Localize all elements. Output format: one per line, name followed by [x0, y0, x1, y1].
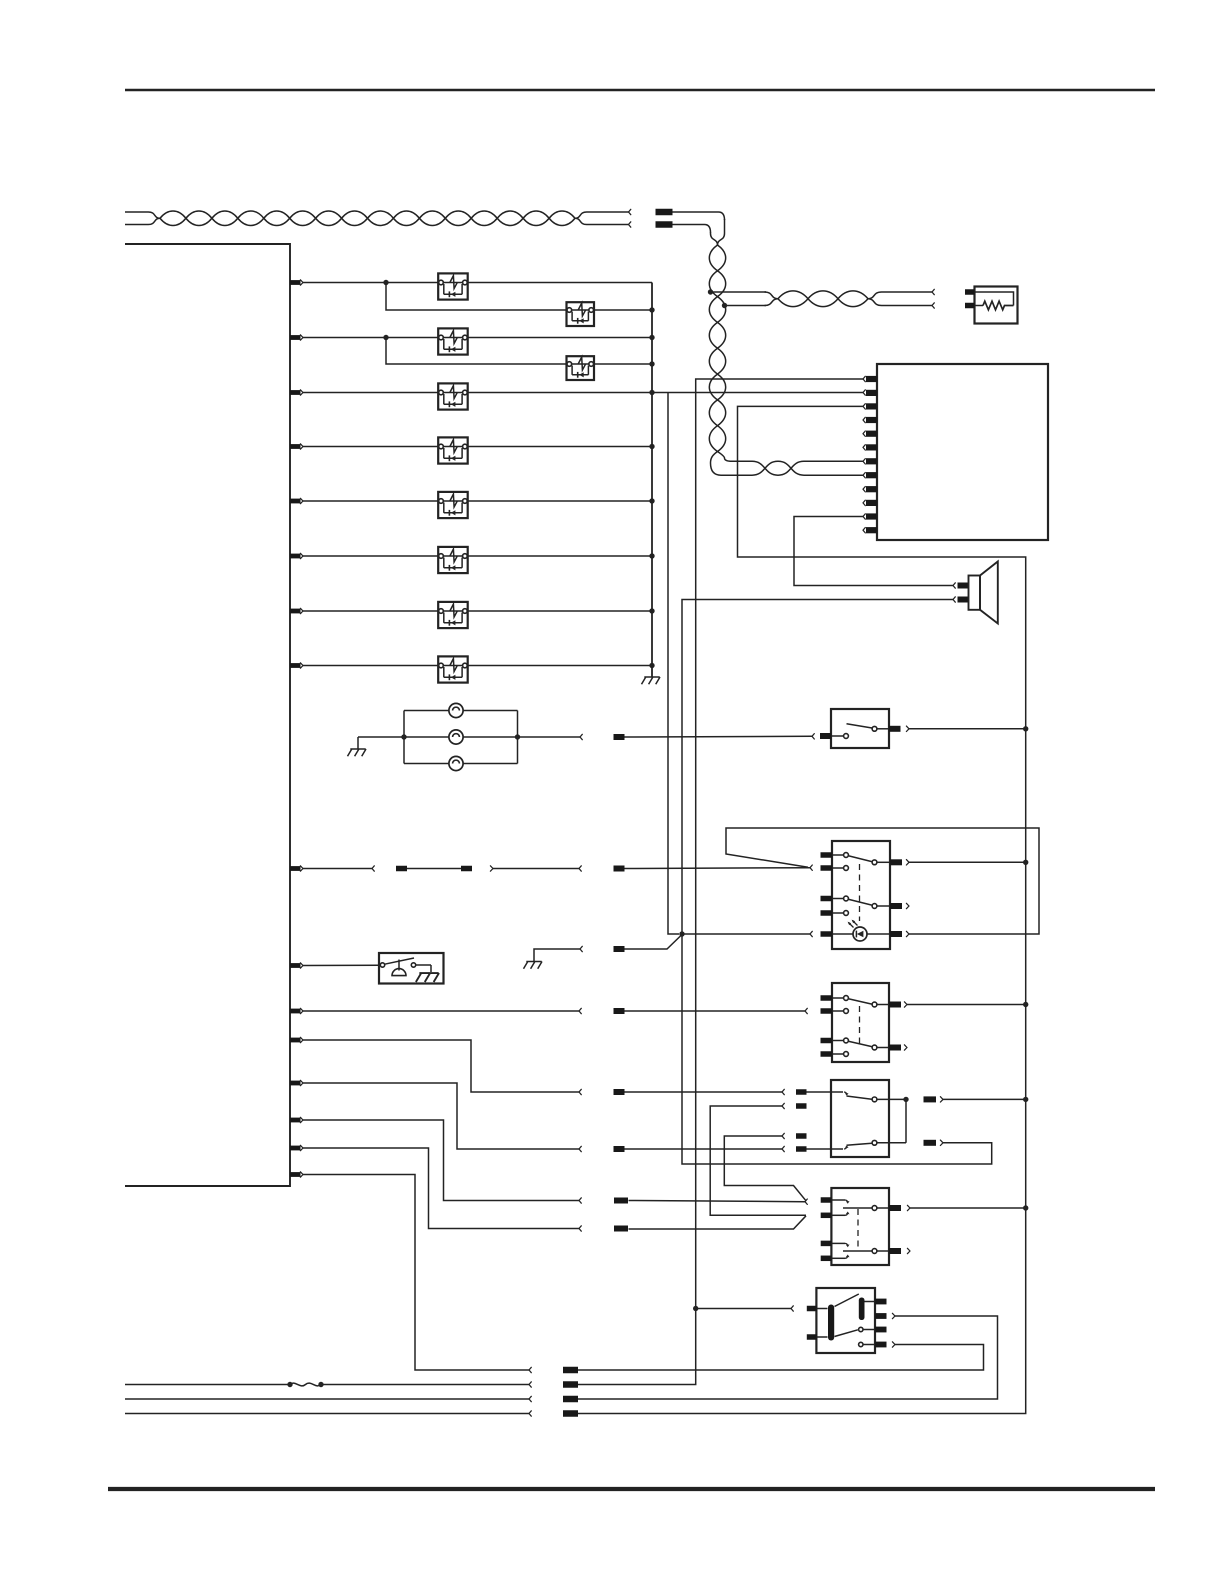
battery feed row 4	[125, 1413, 529, 1415]
branch junction row 1	[383, 280, 388, 285]
injector 1	[438, 273, 468, 299]
wire row 7	[303, 610, 652, 612]
harness pin (row 1011)	[290, 1009, 301, 1014]
switch SW4 (two pole, plug-in)	[831, 1080, 889, 1157]
noise condenser	[975, 287, 1018, 324]
indicator lamp cluster frame	[404, 710, 518, 712]
speaker pins	[958, 583, 969, 589]
injector 2	[438, 328, 468, 354]
wire SW4 pin2 link to SW5 pin2	[710, 1106, 806, 1215]
switch SW2 (combination switch with indicator)	[832, 841, 890, 949]
twisted pair harness (top left)	[125, 211, 629, 225]
terminal SW3 output 2	[904, 1045, 907, 1050]
wire SW1 output	[906, 726, 909, 731]
injector circuit row 3 pin	[290, 390, 301, 395]
wire SW4 pin3 link to SW5 pin1	[724, 1136, 806, 1201]
injector 7	[438, 602, 468, 628]
wire ECM pin11 to speaker +	[794, 517, 953, 586]
wire row 6	[303, 555, 652, 557]
wire SW5 output	[907, 1205, 910, 1210]
switch SW1 (single pole)	[831, 709, 889, 748]
wire	[303, 1083, 579, 1149]
wire to ground net junction	[625, 935, 683, 950]
injector 6	[438, 547, 468, 573]
connector pin	[614, 946, 625, 952]
speaker	[969, 576, 981, 610]
wire	[303, 1175, 529, 1371]
harness pin (stair row 3)	[290, 1118, 301, 1123]
branch junction row 2	[383, 335, 388, 340]
injector circuit row 8 pin	[290, 663, 301, 668]
indicator LED in SW2	[832, 933, 853, 935]
switch SW3 (two pole)	[832, 983, 889, 1062]
top rule	[125, 89, 1155, 92]
junction speaker return / ground net	[679, 931, 684, 936]
relay armature	[859, 1298, 865, 1321]
connector pin	[614, 1008, 625, 1014]
wire	[303, 1040, 579, 1092]
connector pins (switch feeds)	[614, 1089, 625, 1095]
wire SW3 output	[904, 1002, 907, 1007]
main harness line (top left)	[125, 244, 290, 1186]
bottom transition of vertical twisted pair	[711, 452, 864, 476]
wire	[303, 964, 380, 966]
bus junction dots	[649, 307, 654, 312]
wire SW2 output 1	[906, 860, 909, 865]
injector 8	[438, 656, 468, 682]
harness pin row (y868)	[290, 866, 301, 871]
switch SW5 (rotary selector)	[831, 1188, 889, 1265]
harness pin (stair row 4)	[290, 1146, 301, 1151]
terminal SW2 output 2	[906, 903, 909, 908]
wire branch 2	[386, 338, 652, 365]
wire ground to connector	[534, 949, 580, 962]
SW5 interior	[831, 1199, 845, 1201]
injector 3	[438, 383, 468, 409]
terminal SW5 output 2	[907, 1248, 910, 1253]
injector 2b (second bank)	[567, 356, 595, 380]
ground symbol (lamp cluster)	[348, 749, 367, 756]
relay (solenoid type)	[816, 1288, 875, 1353]
harness pin (stair row 1)	[290, 1038, 301, 1043]
wire row 4	[303, 446, 652, 448]
lamp 1	[449, 703, 463, 717]
relay contacts	[859, 1327, 863, 1331]
ground bus (right of injectors)	[651, 283, 653, 678]
wire ECM pin3 / power loop to switches	[578, 406, 1026, 1413]
wire relay output 2	[892, 1313, 895, 1318]
wire ground branch at x668	[668, 393, 679, 935]
wire	[303, 868, 372, 870]
wire speaker - return	[682, 600, 992, 1165]
wire	[303, 1148, 579, 1229]
wire row 2	[303, 337, 652, 339]
wire SW2 LED return loop	[726, 828, 1039, 934]
injector 5	[438, 492, 468, 518]
wire	[303, 1010, 579, 1012]
pressure switch (diaphragm type)	[379, 953, 444, 984]
injector circuit row 2 pin	[290, 335, 301, 340]
wire SW4 output 1	[940, 1097, 943, 1102]
connector pin	[614, 866, 625, 872]
injector circuit row 1 pin	[290, 280, 301, 285]
injector circuit row 4 pin	[290, 444, 301, 449]
wire row 8	[303, 665, 652, 667]
wire row 1	[303, 282, 652, 284]
junction at bus bottom	[649, 663, 654, 668]
injector 4	[438, 437, 468, 463]
lamp 3	[449, 756, 463, 770]
injector circuit row 6 pin	[290, 554, 301, 559]
wire to switch SW2	[625, 867, 811, 870]
injector circuit row 7 pin	[290, 609, 301, 614]
wire to oil pressure switch SW1	[625, 735, 813, 738]
harness pin (stair row 2)	[290, 1081, 301, 1086]
inline connector pair	[396, 866, 407, 872]
wire relay output 4	[892, 1342, 895, 1347]
ECM pins	[866, 376, 877, 382]
relay coil	[828, 1305, 834, 1341]
SW4 interior	[807, 1091, 844, 1093]
connector pin (gauge feed)	[614, 734, 625, 740]
wire to SW4 pin4	[625, 1148, 783, 1150]
wire relay feed	[696, 1308, 791, 1310]
wire ECM pin1 to main relay node	[578, 379, 863, 1385]
ground symbol (sensor return)	[524, 962, 543, 969]
twisted pair terminals at ECU pins 7-8	[863, 459, 865, 464]
control module (ECM)	[877, 364, 1048, 540]
wire to SW4 pin1	[625, 1091, 783, 1093]
wire to SW3	[625, 1010, 806, 1012]
injector circuit row 5 pin	[290, 499, 301, 504]
wire to SW5 pin2 (diagonal)	[629, 1216, 807, 1229]
ECM wired pin terminals	[863, 376, 865, 381]
wire to SW5 pin1	[629, 1201, 806, 1202]
battery feed row 3	[125, 1398, 529, 1400]
junction SW1 to feed bus	[1023, 726, 1028, 731]
battery feed row 2	[125, 1384, 290, 1386]
lamp 2	[449, 730, 463, 744]
wire ground net to SW2 LED	[682, 933, 810, 935]
connector pins (twisted pair)	[656, 209, 673, 216]
relay linkage	[835, 1294, 859, 1307]
harness pin (stair row 5)	[290, 1172, 301, 1177]
twisted pair branch to noise condenser	[711, 291, 767, 293]
wire lamp cluster to gauge connector	[518, 736, 581, 738]
wire	[303, 1120, 579, 1201]
wire row 3	[303, 392, 863, 394]
battery feed row 1 pin	[563, 1367, 578, 1374]
junction on twisted pair (to noise condenser)	[708, 289, 713, 294]
lamp cluster junctions	[401, 734, 406, 739]
vertical twisted pair to ECU	[673, 212, 725, 220]
wire branch 1	[386, 283, 652, 311]
ECU pin 2 terminal	[863, 390, 865, 395]
ground symbol (injector bus)	[642, 677, 661, 684]
ground lead of lamp cluster	[357, 737, 359, 749]
injector 1b (second bank)	[567, 302, 595, 326]
bottom rule	[108, 1487, 1155, 1491]
terminal arrows of twisted pair	[629, 209, 631, 214]
wire row 5	[303, 500, 652, 502]
junction at relay coil feed	[693, 1306, 698, 1311]
harness pin (pressure switch)	[290, 963, 301, 968]
ECM stub pin terminals	[863, 417, 865, 422]
wire	[490, 866, 493, 871]
